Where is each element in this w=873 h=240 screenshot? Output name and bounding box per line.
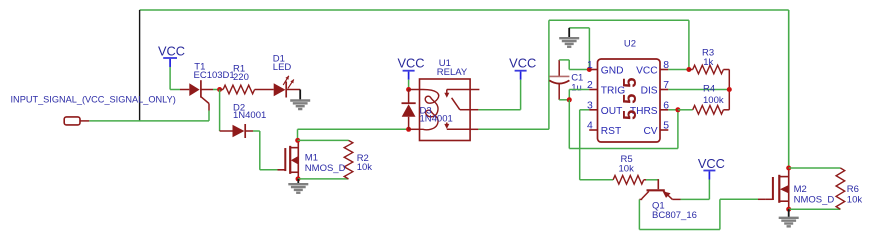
svg-text:NMOS_D: NMOS_D: [794, 194, 835, 205]
svg-text:100k: 100k: [703, 95, 724, 106]
svg-text:555: 555: [619, 72, 640, 120]
svg-text:VCC: VCC: [509, 55, 536, 70]
svg-text:1k: 1k: [703, 57, 713, 68]
svg-text:M2: M2: [794, 184, 807, 195]
svg-text:10k: 10k: [847, 194, 863, 205]
svg-text:5: 5: [663, 121, 669, 132]
svg-text:2: 2: [587, 80, 593, 91]
svg-text:CV: CV: [643, 126, 657, 137]
svg-text:NMOS_D: NMOS_D: [305, 163, 346, 174]
svg-text:VCC: VCC: [158, 43, 185, 58]
svg-text:R4: R4: [703, 83, 715, 94]
svg-text:M1: M1: [305, 152, 318, 163]
svg-text:1u: 1u: [571, 83, 582, 94]
svg-text:DIS: DIS: [641, 86, 658, 97]
svg-text:3: 3: [587, 100, 593, 111]
svg-text:INPUT_SIGNAL_(VCC_SIGNAL_ONLY): INPUT_SIGNAL_(VCC_SIGNAL_ONLY): [11, 95, 176, 105]
svg-text:1N4001: 1N4001: [233, 110, 266, 121]
svg-text:BC807_16: BC807_16: [652, 210, 697, 221]
svg-text:4: 4: [587, 121, 593, 132]
svg-text:U2: U2: [624, 39, 636, 50]
svg-text:VCC: VCC: [698, 156, 725, 171]
svg-text:10k: 10k: [619, 164, 635, 175]
svg-text:10k: 10k: [357, 162, 373, 173]
svg-text:RST: RST: [601, 126, 621, 137]
svg-text:RELAY: RELAY: [437, 67, 468, 78]
svg-text:1N4001: 1N4001: [420, 113, 453, 124]
svg-text:EC103D1: EC103D1: [194, 70, 235, 81]
svg-text:VCC: VCC: [397, 55, 424, 70]
svg-text:R6: R6: [847, 184, 859, 195]
svg-text:1: 1: [587, 60, 593, 71]
svg-text:220: 220: [233, 72, 249, 83]
svg-text:LED: LED: [273, 62, 292, 73]
